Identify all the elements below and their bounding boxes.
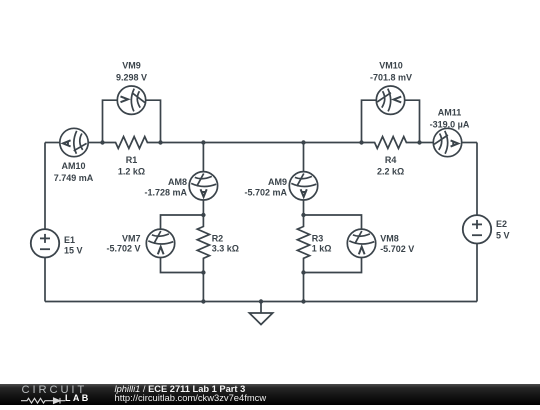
wire E1 bottom to bottom rail	[44, 258, 46, 302]
svg-text:-1.728 mA: -1.728 mA	[144, 187, 187, 197]
svg-text:R1: R1	[126, 155, 138, 165]
wire AM9 bottom to node	[303, 200, 305, 215]
junction R1 left node	[100, 140, 104, 144]
junction R1 right node	[158, 140, 162, 144]
svg-text:VM7: VM7	[122, 233, 141, 243]
junction R2/VM7 bottom node	[201, 270, 205, 274]
junction AM9 branch on main rail	[301, 140, 305, 144]
footer url text	[115, 393, 267, 403]
junction R4 left node	[359, 140, 363, 144]
svg-text:AM8: AM8	[168, 177, 187, 187]
ammeter AM8	[189, 172, 217, 200]
resistor R3	[297, 215, 309, 273]
svg-text:5 V: 5 V	[496, 230, 510, 240]
footer bar	[0, 384, 540, 405]
junction R3/VM8 top node	[301, 213, 305, 217]
ammeter AM10	[60, 128, 88, 156]
voltmeter VM8	[347, 229, 375, 257]
junction AM8 branch on main rail	[201, 140, 205, 144]
svg-text:AM9: AM9	[268, 177, 287, 187]
label AM11	[430, 107, 470, 129]
wire AM11 to right rail corner	[462, 142, 477, 144]
voltage source E1	[31, 229, 59, 257]
wire left rail down to E1	[44, 143, 46, 230]
svg-text:E2: E2	[496, 219, 507, 229]
junction R3/VM8 bottom node	[301, 270, 305, 274]
label R4	[377, 155, 404, 176]
wire VM10 left leg	[362, 100, 377, 142]
junction R4 right node	[417, 140, 421, 144]
junction R2 column on bottom rail	[201, 299, 205, 303]
voltmeter VM9	[117, 86, 145, 114]
svg-text:AM10: AM10	[61, 161, 85, 171]
svg-text:R2: R2	[212, 233, 224, 243]
wire VM10 right leg	[405, 100, 420, 142]
svg-text:-5.702 mA: -5.702 mA	[244, 187, 287, 197]
wire AM10 to R1 left node	[88, 142, 102, 144]
wire right rail down to E2	[476, 143, 478, 216]
wire R3 bottom node to bottom rail	[303, 273, 305, 302]
wire VM9 right leg	[146, 100, 161, 142]
svg-text:VM9: VM9	[122, 60, 141, 70]
resistor R2	[197, 215, 209, 273]
wire R2 bottom node to bottom rail	[202, 273, 204, 302]
label VM8	[380, 234, 414, 255]
label AM9	[244, 177, 287, 197]
ammeter AM11	[433, 128, 461, 156]
wire rail to AM8 top	[202, 143, 204, 172]
svg-text:-5.702 V: -5.702 V	[380, 244, 414, 254]
label VM10	[370, 60, 412, 82]
svg-text:E1: E1	[64, 235, 75, 245]
svg-text:VM10: VM10	[379, 60, 403, 70]
label E2	[496, 219, 510, 240]
svg-text:3.3 kΩ: 3.3 kΩ	[212, 244, 239, 254]
CircuitLab logo LAB	[65, 394, 91, 403]
junction ground on bottom rail	[259, 299, 263, 303]
wire R4 right to AM11	[420, 142, 434, 144]
label E1	[64, 235, 83, 256]
wire node to VM8 top	[304, 215, 362, 229]
svg-text:1.2 kΩ: 1.2 kΩ	[118, 166, 145, 176]
svg-text:2.2 kΩ: 2.2 kΩ	[377, 166, 404, 176]
label AM10	[54, 161, 94, 183]
label R3	[312, 233, 332, 253]
label VM7	[106, 233, 140, 253]
svg-text:R3: R3	[312, 233, 324, 243]
svg-text:-319.0 µA: -319.0 µA	[430, 119, 470, 129]
svg-text:VM8: VM8	[380, 234, 399, 244]
svg-text:7.749 mA: 7.749 mA	[54, 173, 94, 183]
CircuitLab logo squiggle	[21, 397, 66, 405]
label R1	[118, 155, 145, 176]
ammeter AM9	[289, 172, 317, 200]
junction R3 column on bottom rail	[301, 299, 305, 303]
voltmeter VM7	[146, 229, 174, 257]
wire AM8 bottom to node	[202, 200, 204, 215]
svg-text:9.298 V: 9.298 V	[116, 72, 147, 82]
resistor R4	[362, 137, 420, 149]
wire E2 bottom to bottom rail	[476, 244, 478, 302]
wire top-left corner to AM10	[45, 142, 60, 144]
footer title text	[115, 384, 246, 394]
CircuitLab logo CIRCUIT	[22, 385, 88, 395]
svg-text:-5.702 V: -5.702 V	[106, 244, 140, 254]
ground	[249, 302, 272, 325]
label AM8	[144, 177, 187, 197]
wire VM8 bottom to node	[304, 258, 362, 273]
svg-text:15 V: 15 V	[64, 246, 83, 256]
svg-text:1 kΩ: 1 kΩ	[312, 244, 332, 254]
resistor R1	[103, 137, 161, 149]
wire VM7 bottom to node	[161, 258, 204, 273]
label VM9	[116, 60, 147, 82]
svg-text:AM11: AM11	[438, 107, 462, 117]
wire VM9 left leg	[103, 100, 118, 142]
junction R2/VM7 top node	[201, 213, 205, 217]
svg-text:R4: R4	[385, 155, 397, 165]
voltmeter VM10	[376, 86, 404, 114]
wire main rail R1 right to R4 left	[161, 142, 362, 144]
svg-text:-701.8 mV: -701.8 mV	[370, 72, 412, 82]
label R2	[212, 233, 239, 253]
wire bottom rail	[45, 301, 477, 303]
voltage source E2	[463, 215, 491, 243]
wire rail to AM9 top	[303, 143, 305, 172]
wire node to VM7 top	[161, 215, 204, 229]
